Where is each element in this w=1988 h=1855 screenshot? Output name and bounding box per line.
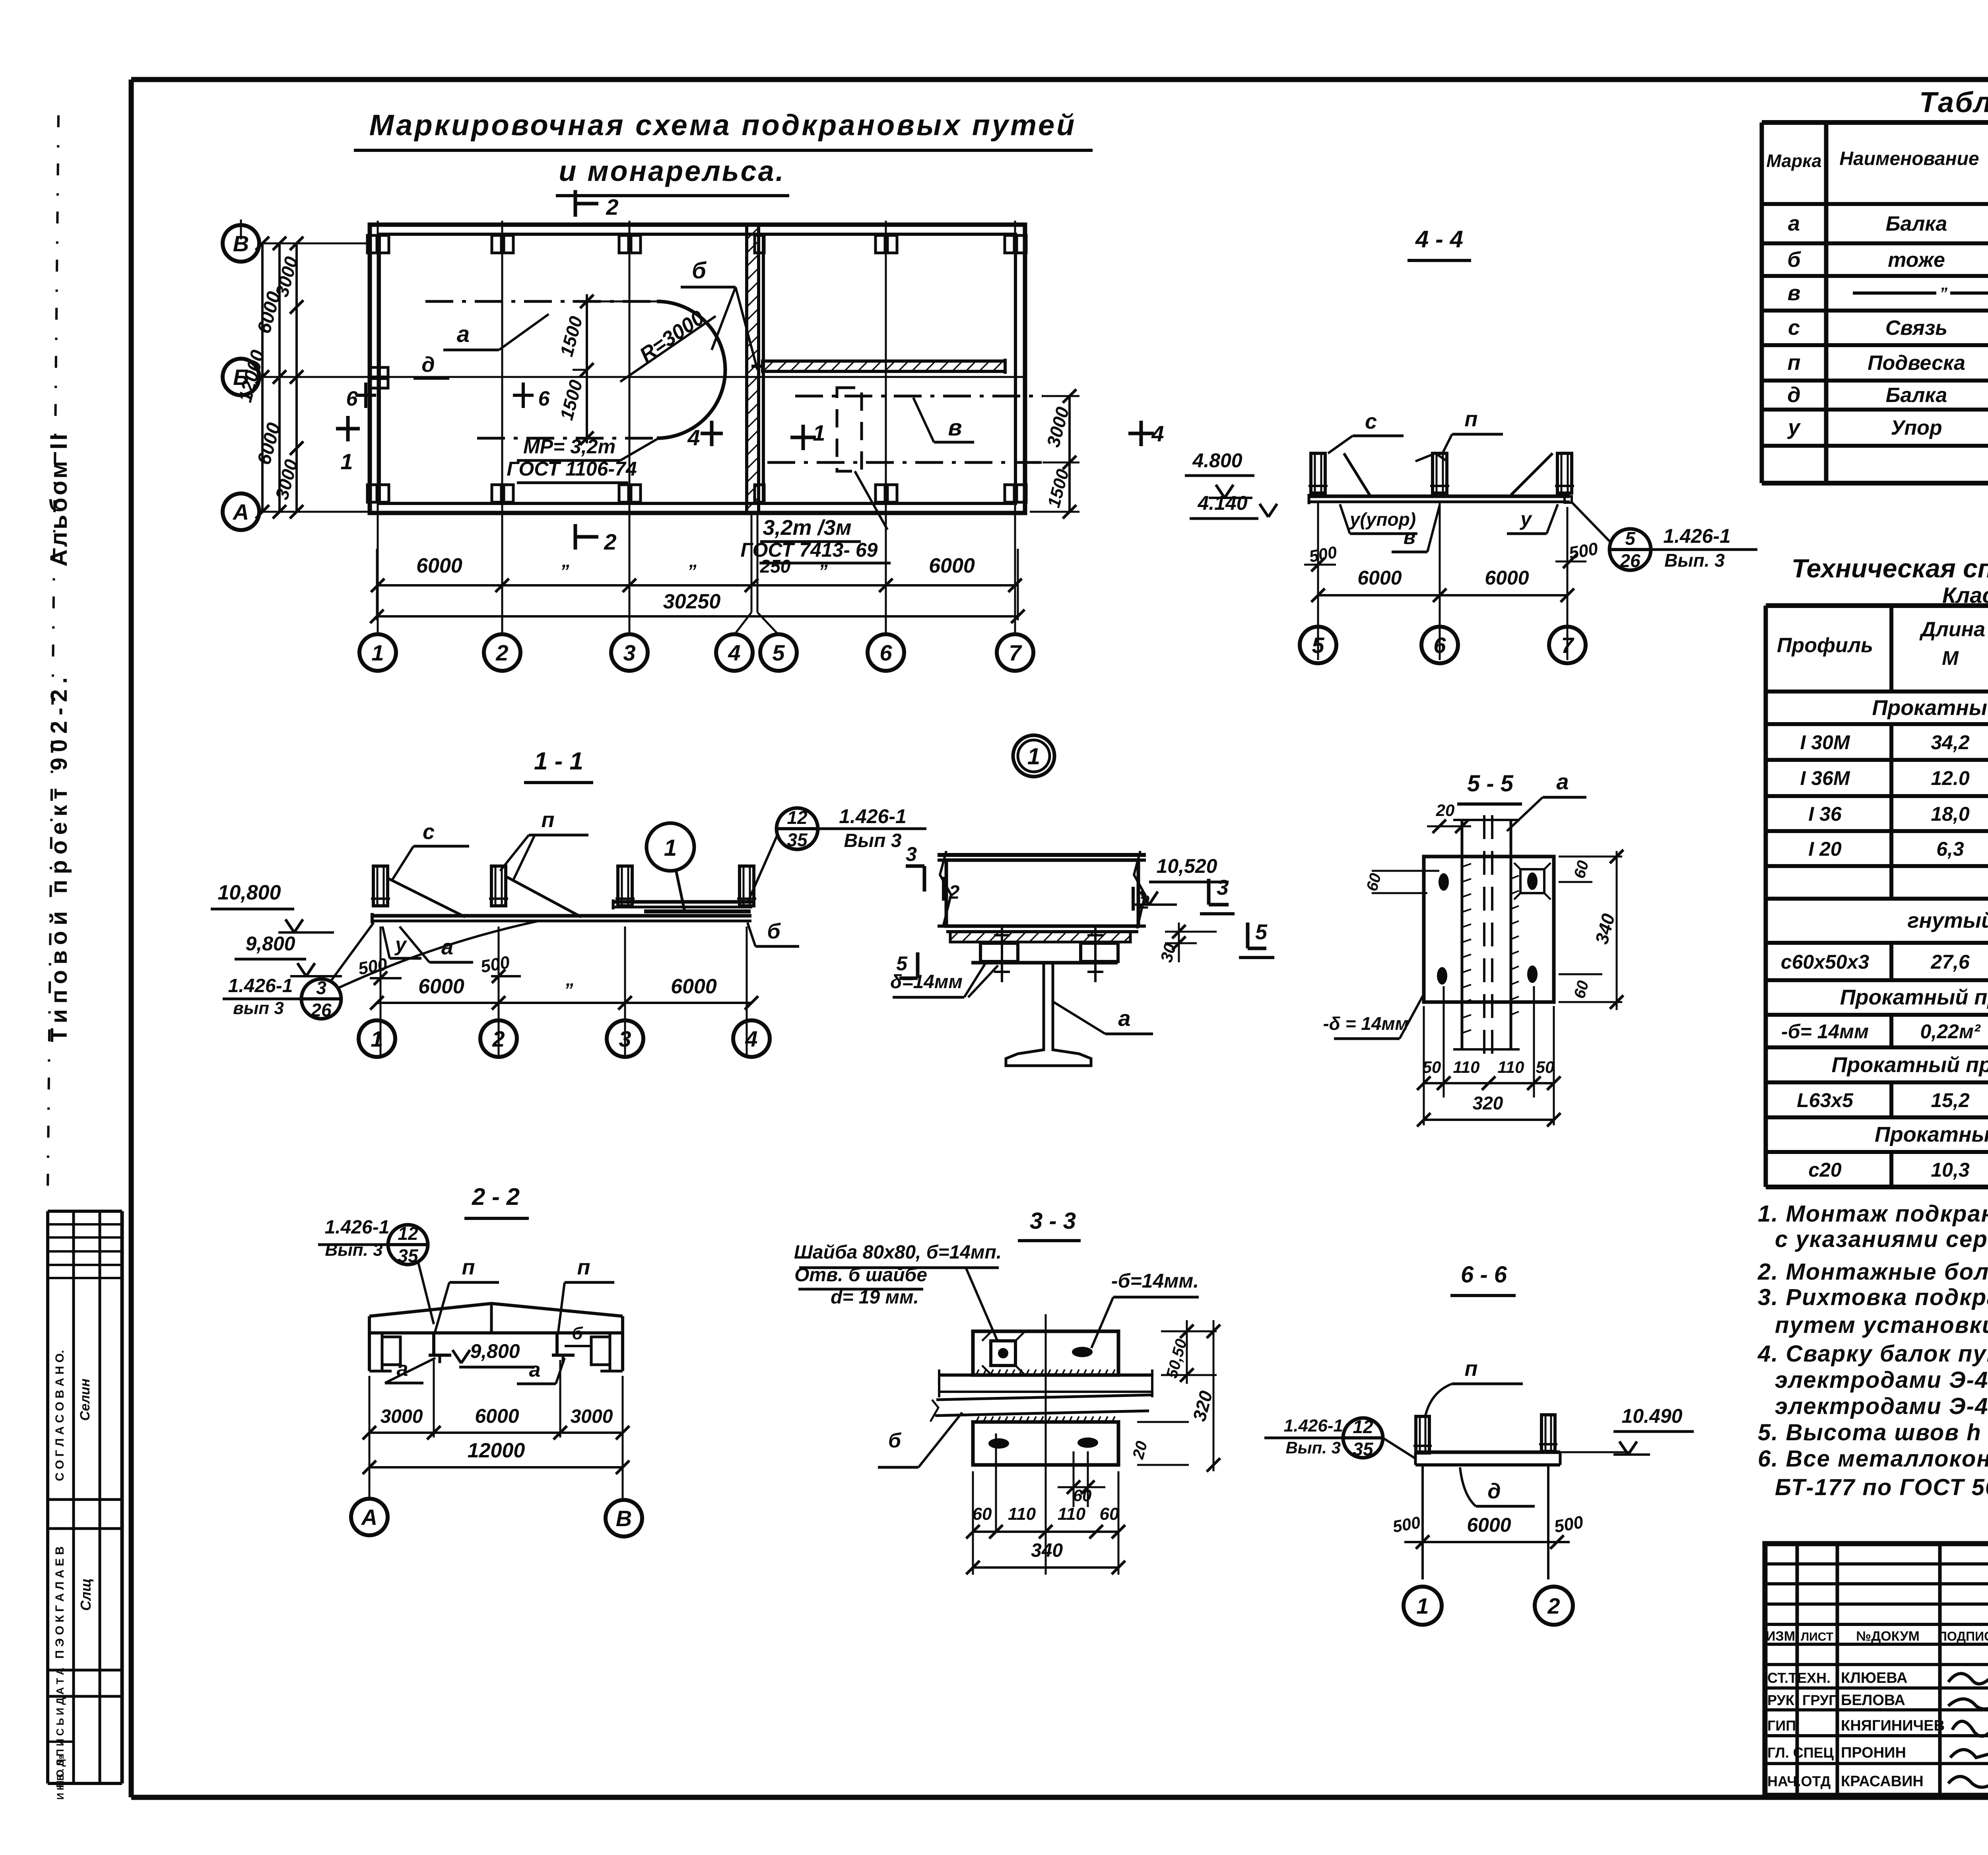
- svg-text:1: 1: [371, 1026, 383, 1051]
- level 9.800: [235, 932, 342, 976]
- grid circle 6: [868, 634, 904, 671]
- beam b top flange: [938, 855, 1146, 860]
- svg-text:Прокатный профиль-двутавры п: Прокатный профиль-двутавры по ГОСТ 19425…: [1872, 696, 1988, 720]
- 5-5 dim 320: [1417, 1093, 1561, 1127]
- 6-6 hangers: [1413, 1415, 1557, 1453]
- svg-text:Таблица сечений.: Таблица сечений.: [1919, 87, 1988, 118]
- svg-text:Вып 3: Вып 3: [844, 830, 901, 851]
- svg-text:6000: 6000: [1357, 567, 1402, 589]
- svg-text:Прокатный профиль-сталь лист: Прокатный профиль-сталь листовая по ГОСТ…: [1840, 985, 1988, 1009]
- svg-text:п: п: [1465, 407, 1478, 431]
- 3-3 right dims: [1058, 1320, 1220, 1505]
- svg-text:п: п: [1788, 351, 1801, 375]
- section 1-1 dim line: [370, 975, 758, 1010]
- level 10.520: [1133, 855, 1229, 905]
- svg-text:ПРОНИН: ПРОНИН: [1841, 1744, 1906, 1761]
- 2-2 hangers: [429, 1333, 575, 1363]
- svg-text:4: 4: [1151, 421, 1164, 446]
- svg-text:Профиль: Профиль: [1777, 634, 1873, 657]
- svg-text:б: б: [767, 919, 781, 943]
- svg-text:12: 12: [1353, 1416, 1373, 1437]
- svg-text:I 30М: I 30М: [1800, 731, 1850, 754]
- section mark 2 left (beam): [944, 877, 1150, 913]
- svg-text:Балка: Балка: [1886, 212, 1947, 235]
- svg-text:1: 1: [371, 640, 384, 665]
- runway lower dash-dot line: [477, 437, 657, 440]
- 4-4 extensions: [1318, 501, 1567, 660]
- svg-text:2: 2: [1139, 892, 1150, 913]
- svg-text:Подвеска: Подвеска: [1868, 352, 1965, 375]
- section 1-1 axis extensions: [381, 927, 747, 1058]
- svg-text:4: 4: [687, 425, 700, 450]
- spec table rows: [1781, 696, 1988, 1181]
- svg-text:1: 1: [664, 835, 677, 861]
- grid circle A (2-2): [351, 1499, 388, 1535]
- svg-text:5: 5: [1255, 920, 1268, 944]
- left attachment stamp: [48, 1211, 122, 1800]
- section 3-3 title: [1018, 1208, 1081, 1241]
- section mark 2 bottom: [575, 524, 617, 554]
- svg-text:А: А: [361, 1505, 377, 1530]
- label a left (2-2): [385, 1358, 435, 1383]
- svg-text:д: д: [421, 353, 435, 377]
- svg-text:КРАСАВИН: КРАСАВИН: [1841, 1773, 1924, 1790]
- level 9.800 (2-2): [452, 1340, 535, 1367]
- vertical text Tipovoy proekt 902-2: [46, 672, 72, 1042]
- svg-text:”: ”: [564, 979, 573, 1000]
- svg-text:6000: 6000: [418, 975, 464, 998]
- 2-2 roof outline: [369, 1303, 623, 1333]
- grid circle В: [223, 225, 259, 262]
- section mark 1 left: [336, 416, 360, 474]
- svg-text:в: в: [948, 415, 962, 441]
- grid circle А: [223, 493, 259, 530]
- svg-text:6: 6: [538, 387, 550, 410]
- runway v dash-dot right hall: [795, 395, 1043, 398]
- svg-text:5: 5: [1625, 528, 1636, 549]
- grid circle 1 (6-6): [1404, 1587, 1442, 1625]
- svg-text:1.426-1: 1.426-1: [1284, 1416, 1343, 1435]
- svg-text:26: 26: [311, 1000, 332, 1020]
- spec title: [1792, 546, 1988, 608]
- grid circle 2: [484, 634, 520, 671]
- svg-text:”: ”: [819, 561, 828, 581]
- plan right dimension lines: [1030, 389, 1079, 519]
- label delta 14 (beam detail): [890, 962, 998, 997]
- svg-text:d= 19 мм.: d= 19 мм.: [831, 1287, 919, 1308]
- svg-text:18,0: 18,0: [1931, 803, 1970, 825]
- section 1-1 braces: [389, 876, 581, 917]
- detail circle 1: [1013, 735, 1054, 777]
- svg-text:0,22м²: 0,22м²: [1920, 1020, 1981, 1043]
- section 1-1 grid circle 4: [733, 1020, 770, 1057]
- svg-text:-б= 14мм: -б= 14мм: [1781, 1020, 1869, 1043]
- svg-text:2: 2: [495, 640, 508, 665]
- svg-text:1 - 1: 1 - 1: [534, 748, 583, 775]
- label a (1-1): [400, 927, 473, 962]
- svg-text:320: 320: [1473, 1093, 1503, 1113]
- svg-text:”: ”: [687, 561, 697, 581]
- svg-text:а: а: [529, 1358, 541, 1381]
- grid circle 4: [716, 634, 753, 671]
- 6-6 columns below: [1423, 1465, 1548, 1579]
- svg-text:1: 1: [813, 420, 825, 445]
- svg-text:6000: 6000: [416, 554, 462, 577]
- svg-text:с20: с20: [1808, 1159, 1842, 1181]
- svg-text:4.800: 4.800: [1192, 449, 1242, 472]
- 5-5 beam flanges vertical: [1453, 820, 1520, 1049]
- svg-text:4: 4: [728, 640, 740, 665]
- section 5-5 title: [1457, 771, 1522, 804]
- 5-5 bottom dims: [1417, 986, 1561, 1125]
- level 10.800: [211, 881, 334, 932]
- table sections title: [1919, 87, 1988, 118]
- row axis line Б: [259, 376, 1025, 378]
- svg-text:с указаниями серии 1.426-1 В: с указаниями серии 1.426-1 Вып. 3.: [1775, 1226, 1988, 1252]
- grid circle 7: [997, 634, 1033, 671]
- label v (4-4): [1392, 505, 1440, 552]
- section 4-4 beam: [1309, 494, 1572, 504]
- label y(upor): [1340, 504, 1417, 534]
- svg-text:Наименование: Наименование: [1839, 148, 1979, 169]
- beam b web: [946, 860, 1138, 926]
- svg-text:4 - 4: 4 - 4: [1415, 226, 1463, 253]
- section mark 4 mid: [687, 421, 723, 450]
- row axis line А: [259, 511, 370, 513]
- section 4-4 hangers: [1309, 453, 1574, 493]
- svg-text:9,800: 9,800: [245, 932, 295, 955]
- svg-text:250: 250: [760, 556, 791, 577]
- svg-text:1: 1: [340, 449, 353, 474]
- section 1-1 grid circle 2: [480, 1020, 517, 1057]
- svg-text:П Э О К Г А Л А Е В: П Э О К Г А Л А Е В: [53, 1546, 66, 1659]
- svg-text:3: 3: [619, 1026, 631, 1051]
- svg-text:1.426-1: 1.426-1: [839, 805, 907, 827]
- 5-5 weld ticks: [1462, 864, 1519, 1033]
- svg-text:БТ-177 по ГОСТ 5631-70*.: БТ-177 по ГОСТ 5631-70*.: [1775, 1474, 1988, 1500]
- svg-text:с60x50x3: с60x50x3: [1781, 951, 1870, 973]
- section mark 3 (beam): [1200, 876, 1235, 914]
- svg-text:тоже: тоже: [1888, 249, 1945, 272]
- svg-text:12.0: 12.0: [1931, 767, 1970, 789]
- svg-text:20: 20: [1436, 801, 1455, 820]
- label p (4-4): [1442, 407, 1503, 453]
- row axis line В: [259, 243, 370, 245]
- svg-text:Селин: Селин: [78, 1379, 93, 1421]
- splice bolts: [994, 927, 1103, 982]
- splice plates: [971, 943, 1118, 963]
- svg-text:а: а: [1788, 212, 1800, 235]
- svg-text:п: п: [462, 1255, 475, 1279]
- 2-2 console right: [591, 1337, 610, 1365]
- svg-text:-δ = 14мм: -δ = 14мм: [1323, 1013, 1408, 1034]
- svg-text:б: б: [692, 258, 707, 284]
- section mark 3 bottom left: [906, 843, 924, 892]
- svg-text:Вып. 3: Вып. 3: [1285, 1438, 1341, 1457]
- svg-text:5: 5: [896, 952, 908, 975]
- left sheet edge dashed line: [48, 115, 58, 1193]
- label c (4-4): [1328, 410, 1404, 453]
- svg-text:4. Сварку балок путей подве: 4. Сварку балок путей подвесного транспо…: [1757, 1341, 1988, 1367]
- label R=3000: [635, 306, 709, 367]
- 4-4 dim line: [1311, 567, 1574, 602]
- svg-text:2 - 2: 2 - 2: [472, 1183, 520, 1210]
- svg-text:ПОДПИСЬ: ПОДПИСЬ: [1938, 1629, 1988, 1643]
- 2-2 console left: [382, 1337, 400, 1365]
- svg-text:I 20: I 20: [1808, 838, 1842, 860]
- svg-text:электродами Э-42А, остальных: электродами Э-42А, остальных металлоконс…: [1775, 1367, 1988, 1393]
- 4-4 braces: [1344, 453, 1553, 495]
- svg-text:вып 3: вып 3: [233, 998, 284, 1018]
- 3-3 washer square: [982, 1332, 1024, 1374]
- svg-text:СТ.ТЕХН.: СТ.ТЕХН.: [1767, 1670, 1831, 1686]
- section 1-1 hangers: [371, 866, 756, 906]
- 3-3 hatch top: [976, 1369, 1115, 1375]
- label c: [392, 820, 469, 881]
- dim 500 (4-4 left): [1304, 542, 1338, 571]
- dim 1500 1500 vertical: [556, 294, 660, 445]
- svg-text:Длина: Длина: [1919, 618, 1985, 641]
- svg-text:60: 60: [1073, 1486, 1092, 1505]
- beam b bottom flange: [938, 926, 1146, 932]
- 5-5 bolts: [1437, 863, 1551, 985]
- svg-text:9,800: 9,800: [470, 1340, 520, 1362]
- svg-text:Прокатный профиль - швеллеры: Прокатный профиль - швеллеры по ГОСТ 824…: [1875, 1123, 1988, 1146]
- svg-text:10,520: 10,520: [1157, 855, 1217, 877]
- svg-text:15,2: 15,2: [1931, 1089, 1970, 1111]
- section 6-6 title: [1450, 1262, 1516, 1296]
- svg-text:1. Монтаж подкрановых путей: 1. Монтаж подкрановых путей вести в соот…: [1758, 1201, 1988, 1227]
- svg-text:Слщ: Слщ: [78, 1578, 94, 1611]
- svg-text:10,800: 10,800: [217, 881, 281, 904]
- notes 1-6: [1757, 1201, 1988, 1500]
- svg-text:7: 7: [1561, 633, 1574, 658]
- svg-text:35: 35: [787, 829, 808, 850]
- svg-text:34,2: 34,2: [1931, 731, 1970, 754]
- svg-text:6: 6: [346, 387, 358, 410]
- svg-text:3. Рихтовка подкрановых путе: 3. Рихтовка подкрановых путей по вертика…: [1758, 1284, 1988, 1310]
- label p (1-1): [500, 808, 588, 881]
- svg-text:ЛИСТ: ЛИСТ: [1801, 1630, 1833, 1643]
- level 4.800: [1185, 449, 1254, 498]
- svg-text:Упор: Упор: [1891, 416, 1942, 439]
- dim 500 (4-4 right): [1555, 539, 1600, 568]
- label y (upor): [382, 927, 421, 958]
- svg-text:1.426-1: 1.426-1: [325, 1217, 390, 1238]
- svg-text:Марка: Марка: [1767, 151, 1822, 171]
- section 1-1 title: [524, 748, 593, 783]
- svg-text:6 - 6: 6 - 6: [1461, 1262, 1507, 1288]
- table sections header: [1767, 141, 1988, 194]
- label d beam row B: [414, 353, 449, 379]
- 3-3 slot hole top: [1072, 1347, 1093, 1357]
- label a right (2-2): [517, 1358, 565, 1384]
- svg-text:4.140: 4.140: [1197, 492, 1247, 514]
- svg-text:б: б: [1787, 248, 1801, 272]
- svg-text:И Н В . №: И Н В . №: [55, 1755, 66, 1800]
- svg-text:50: 50: [1423, 1058, 1441, 1076]
- svg-text:КНЯГИНИЧЕВ: КНЯГИНИЧЕВ: [1841, 1717, 1945, 1734]
- vertical text Album II: [45, 431, 72, 567]
- section 1-1 upper beam: [613, 899, 752, 911]
- svg-text:б: б: [888, 1429, 902, 1452]
- svg-text:6: 6: [1433, 633, 1446, 658]
- svg-text:БЕЛОВА: БЕЛОВА: [1841, 1692, 1905, 1709]
- svg-text:2. Монтажные болты нормально: 2. Монтажные болты нормальной точности М…: [1757, 1259, 1988, 1285]
- svg-text:4: 4: [745, 1026, 757, 1051]
- 3-3 bottom plate: [973, 1422, 1118, 1465]
- grid circle 2 (6-6): [1535, 1587, 1573, 1625]
- svg-text:”: ”: [1939, 285, 1947, 302]
- svg-text:3,2т /3м: 3,2т /3м: [763, 516, 851, 540]
- svg-text:Альбом II: Альбом II: [45, 431, 72, 567]
- 5-5 plate: [1424, 857, 1554, 1002]
- runway a dash-dot line: [425, 300, 657, 303]
- grid circle 3: [611, 634, 648, 671]
- dim 500 marks (1-1): [357, 952, 521, 985]
- svg-text:а: а: [457, 321, 470, 347]
- svg-text:3 - 3: 3 - 3: [1030, 1208, 1076, 1234]
- svg-text:Шайба 80x80, б=14мп.: Шайба 80x80, б=14мп.: [794, 1242, 1002, 1263]
- 3-3 label b: [878, 1412, 962, 1467]
- svg-text:3: 3: [623, 640, 635, 665]
- section mark 6 pair: [346, 383, 550, 410]
- plan total dim 30250: [370, 590, 1025, 623]
- svg-text:2: 2: [604, 529, 616, 554]
- 6-6 beam: [1415, 1452, 1630, 1465]
- svg-text:35: 35: [1353, 1439, 1374, 1459]
- svg-text:3000: 3000: [571, 1406, 613, 1427]
- 3-3 dim 340: [966, 1540, 1125, 1574]
- flag 3/26 (1-1): [223, 921, 541, 1020]
- svg-text:110: 110: [1498, 1058, 1524, 1076]
- wall line axis 5: [762, 234, 765, 503]
- svg-text:у: у: [1787, 416, 1801, 439]
- label a (5-5): [1507, 769, 1586, 831]
- svg-text:Техническая спецификация ста: Техническая спецификация стали В.ст3: [1792, 554, 1988, 583]
- 3-3 beam band: [930, 1369, 1152, 1422]
- label d (6-6): [1460, 1467, 1535, 1506]
- label delta (5-5): [1323, 994, 1424, 1039]
- svg-text:Связь: Связь: [1885, 317, 1947, 340]
- svg-text:5: 5: [1312, 633, 1324, 658]
- 3-3 delta note: [1091, 1270, 1199, 1348]
- dim extension lines: [241, 219, 1018, 620]
- grid circle 5: [760, 634, 797, 671]
- svg-text:в: в: [1404, 526, 1415, 548]
- flag 12/35 (2-2): [318, 1217, 434, 1324]
- section 1-1 grid circle 3: [607, 1020, 643, 1057]
- svg-text:2: 2: [949, 882, 960, 903]
- svg-text:Прокатный профиль-уголки рав: Прокатный профиль-уголки равнобокие по Г…: [1832, 1053, 1988, 1077]
- svg-text:6. Все металлоконструкции ок: 6. Все металлоконструкции окрасить 2 сло…: [1758, 1446, 1988, 1472]
- svg-text:3: 3: [906, 843, 917, 865]
- svg-text:ГИП: ГИП: [1767, 1717, 1796, 1734]
- grid circle 1: [359, 634, 396, 671]
- label MR=3.2t: [507, 435, 660, 483]
- svg-text:10.490: 10.490: [1622, 1405, 1683, 1427]
- svg-text:3000: 3000: [381, 1406, 423, 1427]
- title block grid: [1765, 1544, 1988, 1795]
- svg-text:п: п: [542, 808, 555, 832]
- svg-text:1.426-1: 1.426-1: [228, 975, 293, 996]
- rail hatch band: [950, 932, 1130, 942]
- flag 5/26 (4-4): [1571, 502, 1757, 571]
- svg-text:С О Г Л А С О В А Н О.: С О Г Л А С О В А Н О.: [53, 1350, 66, 1481]
- svg-text:3: 3: [1217, 876, 1229, 899]
- title block signatures: [1766, 1629, 1988, 1790]
- 5-5 side dims: [1363, 801, 1623, 1010]
- label a (beam detail): [1054, 1002, 1153, 1034]
- runway v lower dash-dot right hall: [767, 461, 1043, 464]
- svg-text:РУК. ГРУП: РУК. ГРУП: [1767, 1692, 1839, 1708]
- section 1-1 main beam: [372, 913, 751, 923]
- svg-text:МР= 3,2т: МР= 3,2т: [523, 435, 615, 458]
- svg-text:26: 26: [1619, 550, 1640, 571]
- 5-5 dashed centerlines: [1484, 815, 1492, 1054]
- I-beam a profile: [980, 963, 1118, 1066]
- label b right: [747, 919, 799, 946]
- svg-text:НАЧ.ОТД: НАЧ.ОТД: [1767, 1773, 1831, 1789]
- dim 30: [1157, 923, 1217, 964]
- svg-text:у: у: [1519, 508, 1532, 530]
- svg-text:д: д: [1787, 383, 1800, 407]
- svg-text:5: 5: [772, 640, 785, 665]
- section mark 5 bottom left: [896, 952, 918, 978]
- 3-3 centerlines: [996, 1314, 1088, 1575]
- svg-text:I 36М: I 36М: [1800, 767, 1850, 789]
- svg-text:гнутый профиль-швеллер по Г: гнутый профиль-швеллер по ГОСТ 8278- 63: [1908, 909, 1988, 932]
- svg-text:6000: 6000: [1485, 567, 1529, 589]
- svg-text:27,6: 27,6: [1930, 951, 1970, 973]
- plan left dimension lines: [235, 237, 303, 519]
- section 4-4 title: [1408, 226, 1471, 260]
- svg-text:12: 12: [787, 807, 808, 828]
- 2-2 dim line: [363, 1405, 629, 1439]
- drawing title line 1: [354, 109, 1093, 150]
- svg-text:3: 3: [316, 977, 326, 998]
- grid circle B (2-2): [606, 1500, 642, 1536]
- svg-text:I 36: I 36: [1808, 803, 1842, 825]
- 3-3 bottom dims: [966, 1471, 1125, 1575]
- svg-text:110: 110: [1008, 1504, 1036, 1524]
- level 4.140: [1190, 492, 1277, 519]
- table sections grid: [1762, 122, 1988, 483]
- svg-text:у: у: [394, 933, 407, 956]
- svg-text:5. Высота швов h шб. = 8 мм: 5. Высота швов h шб. = 8 мм., кроме огов…: [1758, 1420, 1988, 1445]
- svg-text:1: 1: [1416, 1593, 1429, 1618]
- svg-text:”: ”: [560, 561, 569, 581]
- label b mid (2-2): [565, 1324, 592, 1346]
- svg-text:Маркировочная схема подкрано: Маркировочная схема подкрановых путей: [369, 109, 1077, 142]
- svg-text:110: 110: [1058, 1504, 1086, 1524]
- drawing title line 2: [556, 155, 789, 196]
- grid circle 6 (4-4): [1421, 627, 1458, 663]
- svg-text:№ДОКУМ: №ДОКУМ: [1856, 1629, 1920, 1644]
- label p (6-6): [1425, 1357, 1523, 1416]
- svg-text:М: М: [1942, 647, 1959, 669]
- grid circle Б: [223, 359, 259, 395]
- svg-text:5 - 5: 5 - 5: [1467, 771, 1514, 796]
- 2-2 total dim: [363, 1439, 629, 1474]
- svg-text:6: 6: [879, 640, 892, 665]
- 3-3 top plate: [973, 1331, 1118, 1375]
- svg-text:в: в: [1788, 281, 1801, 305]
- svg-text:путем установки монтажных п: путем установки монтажных прокладок в за…: [1775, 1312, 1988, 1338]
- 2-2 walls: [369, 1333, 623, 1371]
- 3-3 washer note: [794, 1242, 1002, 1342]
- svg-text:Отв. б шайбе: Отв. б шайбе: [794, 1265, 927, 1286]
